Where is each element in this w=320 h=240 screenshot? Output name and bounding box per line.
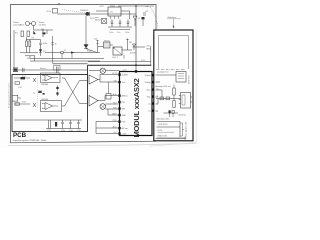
svg-text:Taster: Taster xyxy=(13,21,19,24)
capacitor C1 xyxy=(42,29,46,37)
capacitor C7 xyxy=(56,86,58,91)
resistor R3 xyxy=(26,41,28,47)
dashed leader xyxy=(62,10,86,14)
svg-text:LP 4 Ohm: LP 4 Ohm xyxy=(189,75,191,84)
wire below module xyxy=(155,137,185,141)
outside-left pin labels xyxy=(112,73,118,134)
diode D2 xyxy=(39,50,42,53)
left input row bottom xyxy=(14,103,30,105)
dash-dot bottom xyxy=(156,69,186,71)
capacitor C3 xyxy=(13,68,18,72)
svg-text:+12V: +12V xyxy=(46,11,52,13)
frame bump marker xyxy=(58,3,61,4)
svg-text:Anschluss Kfz: Anschluss Kfz xyxy=(157,118,170,121)
inner rect xyxy=(159,36,189,70)
svg-text:Gehäuse: Gehäuse xyxy=(168,17,178,19)
svg-text:Rel. 1: Rel. 1 xyxy=(113,57,119,59)
svg-text:Summer: Summer xyxy=(179,115,187,117)
junction node xyxy=(135,64,137,66)
svg-text:Lautsprecher: Lautsprecher xyxy=(157,71,169,74)
resistor R4 xyxy=(29,41,31,47)
transistor X2 xyxy=(33,103,36,107)
svg-text:78L05: 78L05 xyxy=(104,41,110,43)
wires from circle B xyxy=(98,96,118,110)
module left pins xyxy=(118,73,120,134)
svg-text:Lf-: Lf- xyxy=(148,111,151,113)
capacitor C6 xyxy=(127,20,130,27)
svg-text:PCB: PCB xyxy=(13,132,27,139)
svg-text:ext.: ext. xyxy=(146,5,150,8)
svg-text:1k: 1k xyxy=(55,44,57,46)
wire row 68 xyxy=(89,70,120,72)
wire xyxy=(85,16,87,45)
wire xyxy=(20,47,38,53)
svg-text:P2D: P2D xyxy=(122,122,126,124)
module top pin xyxy=(135,70,137,72)
sheet frame xyxy=(11,5,157,143)
wire y70 xyxy=(13,69,88,71)
svg-text:A/Com: A/Com xyxy=(122,127,128,130)
connector circle A xyxy=(100,68,105,73)
opamp box A xyxy=(41,73,61,83)
component column right xyxy=(143,13,146,15)
wire top xyxy=(26,37,40,43)
right side wiring: pin 1 wire xyxy=(156,74,177,76)
wires to module xyxy=(98,75,118,83)
svg-text:7812: 7812 xyxy=(110,6,116,8)
capacitor C9 xyxy=(38,91,42,93)
capacitor C5 xyxy=(119,20,122,27)
module right pins xyxy=(152,74,154,112)
wire xyxy=(98,45,145,50)
dashed vertical xyxy=(37,76,39,108)
left input row top xyxy=(14,77,30,79)
capacitor C8 xyxy=(56,92,58,97)
wire xyxy=(58,13,137,15)
capacitor C4 xyxy=(111,20,114,27)
bottom components xyxy=(49,120,80,129)
wire row xyxy=(156,98,181,100)
svg-text:S/N: S/N xyxy=(122,109,126,111)
svg-text:ext./Kfz: ext./Kfz xyxy=(39,24,46,27)
wires lower pins xyxy=(96,109,118,134)
svg-text:Masse: Masse xyxy=(40,68,47,70)
connector box right xyxy=(181,93,191,109)
svg-text:Impulsausgabe CYBEX AS - Rode: Impulsausgabe CYBEX AS - Rode xyxy=(13,139,47,142)
scan artifacts bottom xyxy=(8,143,196,145)
bus wires xyxy=(30,58,104,60)
resistor R2 xyxy=(27,31,30,37)
wire junction xyxy=(34,56,36,61)
wire xyxy=(30,24,54,31)
capacitor C2 xyxy=(39,43,41,49)
PCB inner box xyxy=(12,75,88,132)
wire vertical main xyxy=(135,6,137,72)
svg-text:S-Stop: S-Stop xyxy=(145,81,152,84)
crossover wires xyxy=(62,78,88,106)
svg-text:100n: 100n xyxy=(125,32,129,34)
svg-text:MODUL xxxASX2: MODUL xxxASX2 xyxy=(132,78,141,137)
diode D7 xyxy=(84,45,88,49)
svg-text:Eingangssignal intern extern: Eingangssignal intern extern xyxy=(8,83,11,108)
diode D1 xyxy=(34,31,36,34)
wire vertical xyxy=(52,36,54,59)
node xyxy=(135,5,137,7)
IC U1 xyxy=(108,7,121,16)
svg-text:+12V: +12V xyxy=(122,70,127,72)
diode D3 xyxy=(85,12,89,16)
svg-text:100n: 100n xyxy=(109,32,113,34)
svg-text:S-: S- xyxy=(157,95,159,97)
svg-text:extern/Abst.: extern/Abst. xyxy=(13,24,25,27)
small component box xyxy=(106,94,111,100)
svg-text:+12V: +12V xyxy=(122,134,127,136)
resistor R21 xyxy=(173,101,175,108)
connector circle B xyxy=(100,104,106,110)
connector J2 xyxy=(32,22,36,26)
diode D5 xyxy=(133,44,136,47)
svg-text:P/U: P/U xyxy=(122,102,126,104)
connector J1 xyxy=(26,22,30,26)
svg-text:Imp-: Imp- xyxy=(147,97,151,99)
svg-text:10k: 10k xyxy=(31,38,34,40)
svg-text:10k: 10k xyxy=(94,39,97,41)
triangle T2 xyxy=(89,96,98,107)
resistor R5 xyxy=(97,40,99,53)
triangle T1 xyxy=(89,75,98,84)
ground rail xyxy=(108,27,132,30)
opamp box B xyxy=(41,101,62,112)
value labels scatter xyxy=(18,11,160,132)
module box xyxy=(120,72,153,136)
component pair bottom right xyxy=(164,112,179,114)
dashed leader curve xyxy=(150,7,158,28)
wire xyxy=(25,56,35,59)
svg-text:GND: GND xyxy=(146,49,151,51)
svg-text:LM2904: LM2904 xyxy=(41,84,49,86)
svg-text:S-Start: S-Start xyxy=(145,74,152,77)
box LS xyxy=(176,72,186,83)
right block xyxy=(154,30,193,141)
svg-text:LM2904: LM2904 xyxy=(41,99,49,101)
svg-text:1N4001: 1N4001 xyxy=(80,10,88,12)
svg-text:Fahrzeugkabel 12V: Fahrzeugkabel 12V xyxy=(186,121,188,139)
svg-text:GND Kl.31: GND Kl.31 xyxy=(158,136,168,138)
svg-text:+12V: +12V xyxy=(99,6,104,8)
svg-text:GND: GND xyxy=(122,115,127,117)
svg-text:Kl.30: Kl.30 xyxy=(141,60,145,62)
module right pin labels inside xyxy=(145,74,152,113)
supply label xyxy=(53,9,58,14)
svg-text:10u: 10u xyxy=(117,32,120,34)
wires from module right pins to bottom box xyxy=(156,82,161,111)
IC U3 xyxy=(104,42,111,48)
transistor Q1 xyxy=(102,19,107,24)
bus verticals xyxy=(53,53,73,64)
resistor R1 xyxy=(21,31,24,37)
svg-text:100n: 100n xyxy=(43,43,47,45)
svg-text:Taster: Taster xyxy=(39,21,45,24)
wire left rail xyxy=(13,30,15,70)
svg-text:1u: 1u xyxy=(33,93,35,95)
lamp F1 xyxy=(45,52,100,54)
svg-text:+5V: +5V xyxy=(146,46,150,48)
transistor X xyxy=(33,78,36,82)
svg-text:BZX85: BZX85 xyxy=(130,53,137,55)
module left pin labels inside xyxy=(122,75,129,136)
svg-text:Zub/IN: Zub/IN xyxy=(122,75,129,77)
svg-text:A/Start: A/Start xyxy=(122,95,129,98)
wire drop xyxy=(46,30,48,34)
resistor R20 xyxy=(173,88,175,95)
svg-text:TxD: TxD xyxy=(122,82,126,84)
left edge mid box xyxy=(12,95,17,101)
bracket xyxy=(181,123,185,136)
diode D4 xyxy=(133,16,137,20)
svg-text:Modul: Modul xyxy=(95,19,101,21)
wire top xyxy=(96,11,130,19)
svg-text:+12V Kl.30: +12V Kl.30 xyxy=(158,124,169,126)
bottom row wire xyxy=(14,119,82,121)
relay U4 xyxy=(113,47,122,55)
